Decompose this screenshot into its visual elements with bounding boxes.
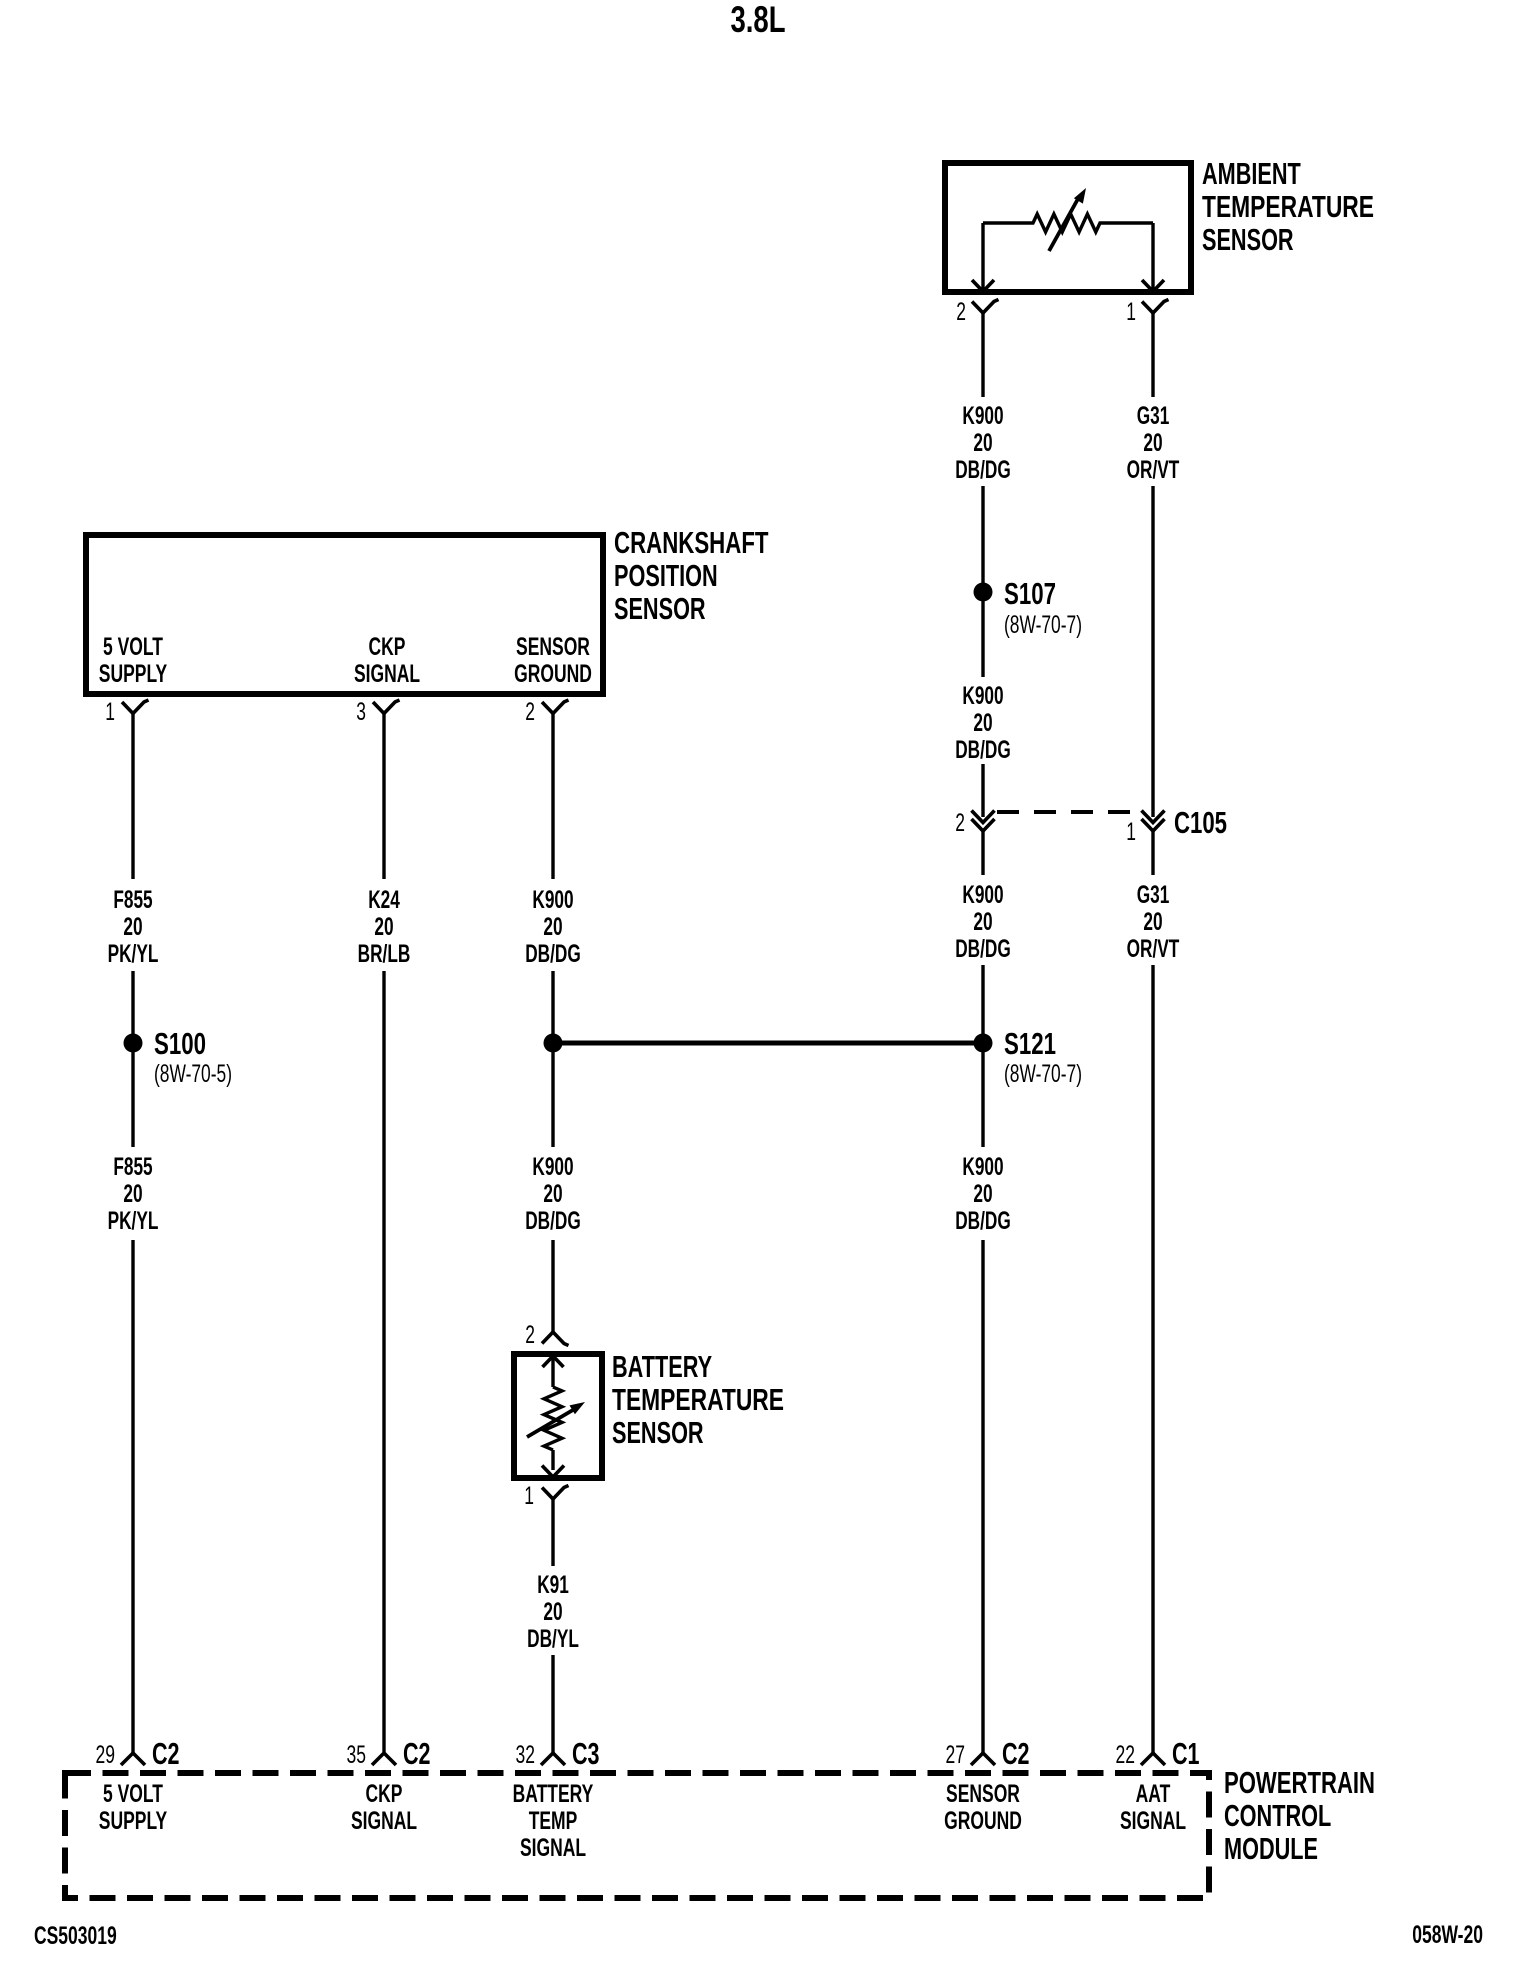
ambient temperature sensor title: [1202, 156, 1374, 257]
svg-text:DB/DG: DB/DG: [525, 940, 581, 968]
svg-text:S100: S100: [154, 1026, 206, 1061]
svg-text:AAT: AAT: [1136, 1780, 1171, 1808]
diagram id CS503019: [34, 1922, 117, 1950]
crankshaft position sensor title: [614, 525, 769, 626]
sheet id 058W-20: [1412, 1921, 1483, 1949]
PCM pin 27 connector C2: [971, 1753, 995, 1765]
svg-text:C2: C2: [1002, 1736, 1030, 1771]
svg-text:20: 20: [543, 1180, 562, 1208]
battery temperature sensor title: [612, 1349, 784, 1450]
svg-text:1: 1: [105, 698, 115, 726]
wire K900 to splice S121: [981, 965, 984, 1147]
svg-text:F855: F855: [113, 1153, 152, 1181]
svg-text:POWERTRAIN: POWERTRAIN: [1224, 1765, 1375, 1800]
connector C105 pin 1: [1142, 811, 1165, 823]
svg-text:2: 2: [525, 698, 535, 726]
svg-text:DB/DG: DB/DG: [525, 1207, 581, 1235]
PCM pin 35 connector C2: [372, 1753, 396, 1765]
wire K91 to PCM pin 32: [551, 1655, 554, 1755]
svg-text:BATTERY: BATTERY: [513, 1780, 594, 1808]
thermistor RT battery: internal up arrow: [543, 1356, 564, 1367]
svg-text:SENSOR: SENSOR: [946, 1780, 1020, 1808]
wire label K900 20 DB/DG (below C105): [955, 881, 1011, 963]
svg-text:K900: K900: [962, 1153, 1003, 1181]
crankshaft pin 1 connector: [122, 700, 149, 714]
svg-text:20: 20: [973, 709, 992, 737]
ambient temperature sensor box: [945, 163, 1191, 292]
svg-text:20: 20: [123, 913, 142, 941]
svg-text:PK/YL: PK/YL: [108, 1207, 159, 1235]
wire K900 continues to splice S107: [981, 486, 984, 677]
wire label K900 20 DB/DG (below ambient): [955, 402, 1011, 484]
svg-text:3.8L: 3.8L: [731, 0, 786, 40]
svg-text:TEMP: TEMP: [529, 1807, 578, 1835]
wire label K24 20 BR/LB: [358, 886, 411, 968]
battery sensor pin 1 connector: [542, 1486, 569, 1500]
svg-text:20: 20: [543, 1598, 562, 1626]
svg-text:K900: K900: [962, 682, 1003, 710]
svg-text:S107: S107: [1004, 576, 1056, 611]
svg-text:POSITION: POSITION: [614, 558, 718, 593]
svg-text:TEMPERATURE: TEMPERATURE: [612, 1382, 784, 1417]
svg-text:20: 20: [374, 913, 393, 941]
crankshaft sensor terminal labels: [99, 633, 592, 688]
svg-text:OR/VT: OR/VT: [1127, 935, 1180, 963]
svg-text:20: 20: [973, 429, 992, 457]
svg-text:GROUND: GROUND: [514, 660, 592, 688]
svg-text:SENSOR: SENSOR: [516, 633, 590, 661]
ambient sensor internal lead pin 1 (down arrow): [1151, 223, 1154, 289]
wire F855 from crankshaft pin 1: [131, 714, 134, 880]
wire K900 below C105: [981, 831, 984, 875]
svg-text:SIGNAL: SIGNAL: [354, 660, 420, 688]
wire K900 from label to battery temp sensor pin 2: [551, 1240, 554, 1332]
svg-text:20: 20: [1143, 429, 1162, 457]
connector C105 label: [1174, 805, 1227, 840]
svg-text:35: 35: [347, 1741, 367, 1769]
wire K900 from label to connector C105 pin 2: [981, 764, 984, 817]
svg-text:K91: K91: [537, 1571, 569, 1599]
svg-text:CONTROL: CONTROL: [1224, 1798, 1331, 1833]
wire label F855 20 PK/YL: [108, 886, 159, 968]
wire K900 from ambient pin 2 down: [981, 313, 984, 397]
wire G31 below C105: [1151, 831, 1154, 875]
svg-text:CKP: CKP: [369, 633, 406, 661]
crankshaft pin 3 connector: [373, 700, 400, 714]
svg-text:AMBIENT: AMBIENT: [1202, 156, 1301, 191]
svg-text:2: 2: [955, 809, 965, 837]
engine displacement label 3.8L: [731, 0, 786, 40]
svg-text:C105: C105: [1174, 805, 1227, 840]
PCM pin 32 connector C3: [541, 1753, 565, 1765]
wire G31 continues to connector C105 pin 1: [1151, 486, 1154, 817]
wire K91 from battery sensor pin 1: [551, 1499, 554, 1566]
svg-text:K900: K900: [532, 1153, 573, 1181]
svg-text:K900: K900: [532, 886, 573, 914]
ambient pin 1 connector: [1142, 300, 1169, 314]
svg-text:(8W-70-5): (8W-70-5): [154, 1060, 232, 1088]
thermistor RT battery: internal down arrow: [542, 1466, 564, 1478]
svg-text:MODULE: MODULE: [1224, 1831, 1318, 1866]
thermistor RT battery: vertical zigzag with diagonal arrow: [544, 1387, 562, 1450]
svg-text:K24: K24: [368, 886, 400, 914]
svg-text:20: 20: [123, 1180, 142, 1208]
wire K900 from S121 to PCM pin 27: [981, 1240, 984, 1755]
svg-text:SENSOR: SENSOR: [612, 1415, 704, 1450]
svg-text:SIGNAL: SIGNAL: [1120, 1807, 1186, 1835]
svg-text:SENSOR: SENSOR: [614, 591, 706, 626]
wire F855 to splice S100: [131, 971, 134, 1147]
svg-text:C1: C1: [1172, 1736, 1200, 1771]
wire K24 from crankshaft pin 3: [382, 714, 385, 880]
svg-text:32: 32: [516, 1741, 536, 1769]
svg-text:20: 20: [973, 1180, 992, 1208]
battery temperature sensor box: [514, 1354, 602, 1478]
svg-text:(8W-70-7): (8W-70-7): [1004, 1060, 1082, 1088]
ambient pin 2 connector: [972, 300, 999, 314]
svg-text:BATTERY: BATTERY: [612, 1349, 712, 1384]
svg-text:CRANKSHAFT: CRANKSHAFT: [614, 525, 769, 560]
svg-text:DB/DG: DB/DG: [955, 456, 1011, 484]
svg-text:1: 1: [524, 1482, 534, 1510]
svg-text:SIGNAL: SIGNAL: [520, 1834, 586, 1862]
splice S121: [974, 1034, 993, 1053]
svg-text:5 VOLT: 5 VOLT: [103, 1780, 163, 1808]
svg-text:DB/DG: DB/DG: [955, 1207, 1011, 1235]
wire label K900 20 DB/DG (below S107): [955, 682, 1011, 764]
svg-text:(8W-70-7): (8W-70-7): [1004, 611, 1082, 639]
svg-text:BR/LB: BR/LB: [358, 940, 411, 968]
svg-text:GROUND: GROUND: [944, 1807, 1022, 1835]
svg-text:27: 27: [946, 1741, 966, 1769]
svg-text:5 VOLT: 5 VOLT: [103, 633, 163, 661]
svg-text:DB/YL: DB/YL: [527, 1625, 579, 1653]
svg-text:PK/YL: PK/YL: [108, 940, 159, 968]
connector C105 dashed tie line: [997, 810, 1139, 814]
wire label G31 20 OR/VT (below ambient): [1127, 402, 1180, 484]
svg-text:058W-20: 058W-20: [1412, 1921, 1483, 1949]
svg-text:F855: F855: [113, 886, 152, 914]
wire G31 long run to PCM pin 22: [1151, 965, 1154, 1755]
crankshaft pin 2 connector: [542, 700, 569, 714]
wire G31 from ambient pin 1 down: [1151, 313, 1154, 397]
svg-text:TEMPERATURE: TEMPERATURE: [1202, 189, 1374, 224]
svg-text:G31: G31: [1137, 402, 1170, 430]
junction node (sensor ground tie): [544, 1034, 563, 1053]
svg-text:C2: C2: [403, 1736, 431, 1771]
wire K900 to junction: [551, 971, 554, 1147]
svg-text:3: 3: [356, 698, 366, 726]
powertrain control module dashed box: [65, 1773, 1209, 1898]
svg-text:S121: S121: [1004, 1026, 1056, 1061]
PCM pin 22 connector C1: [1141, 1753, 1165, 1765]
svg-text:SIGNAL: SIGNAL: [351, 1807, 417, 1835]
svg-text:DB/DG: DB/DG: [955, 935, 1011, 963]
wire K24 to PCM pin 35: [382, 971, 385, 1755]
wire label K900 20 DB/DG (sensor ground): [525, 886, 581, 968]
svg-text:29: 29: [96, 1741, 116, 1769]
svg-text:1: 1: [1126, 818, 1136, 846]
svg-text:CKP: CKP: [366, 1780, 403, 1808]
svg-text:SENSOR: SENSOR: [1202, 222, 1294, 257]
svg-text:DB/DG: DB/DG: [955, 736, 1011, 764]
svg-text:20: 20: [1143, 908, 1162, 936]
svg-text:K900: K900: [962, 881, 1003, 909]
svg-text:G31: G31: [1137, 881, 1170, 909]
svg-text:2: 2: [525, 1321, 535, 1349]
wire label K91 20 DB/YL: [527, 1571, 579, 1653]
wire label K900 20 DB/DG (below junction): [525, 1153, 581, 1235]
svg-text:C3: C3: [572, 1736, 600, 1771]
splice S100: [124, 1034, 143, 1053]
connector C105 pin 2: [972, 811, 995, 823]
battery sensor pin 2 connector: [542, 1332, 569, 1346]
wire label G31 20 OR/VT (below C105): [1127, 881, 1180, 963]
thermistor RT ambient: zigzag resistor with diagonal arrow: [983, 214, 1153, 232]
wire K900 from crankshaft pin 2: [551, 714, 554, 880]
svg-text:22: 22: [1116, 1741, 1136, 1769]
powertrain control module title: [1224, 1765, 1375, 1866]
svg-text:CS503019: CS503019: [34, 1922, 117, 1950]
PCM pin 29 connector C2: [121, 1753, 145, 1765]
svg-text:SUPPLY: SUPPLY: [99, 660, 168, 688]
wire F855 to PCM pin 29: [131, 1240, 134, 1755]
wire label K900 20 DB/DG (below S121): [955, 1153, 1011, 1235]
svg-text:20: 20: [973, 908, 992, 936]
svg-text:OR/VT: OR/VT: [1127, 456, 1180, 484]
crankshaft position sensor box: [86, 535, 603, 694]
svg-text:SUPPLY: SUPPLY: [99, 1807, 168, 1835]
svg-text:20: 20: [543, 913, 562, 941]
wire junction to S121 (horizontal): [553, 1041, 983, 1046]
svg-text:1: 1: [1126, 298, 1136, 326]
splice S107: [974, 583, 993, 602]
svg-text:2: 2: [956, 298, 966, 326]
svg-text:C2: C2: [152, 1736, 180, 1771]
svg-text:K900: K900: [962, 402, 1003, 430]
wire label F855 20 PK/YL (below S100): [108, 1153, 159, 1235]
ambient sensor internal lead pin 2 (down arrow): [981, 223, 984, 289]
